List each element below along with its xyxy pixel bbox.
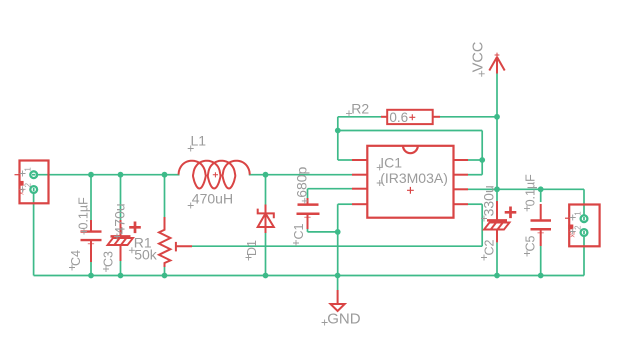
wire R1 top [164, 175, 166, 217]
wire D1 bottom [265, 233, 267, 276]
X1 pad 2 hole mark [33, 188, 35, 191]
X2 pad 1 hole mark [583, 217, 585, 220]
junction C5 bot [538, 273, 544, 279]
op-amp / regulator IC1 [367, 146, 453, 218]
X2 pad 1 [581, 215, 588, 222]
wire IC pin R2 [468, 174, 482, 176]
wire top rail from X1 pin1 to node at R1/L1 [32, 174, 165, 176]
wire node D1 to IC1 pin [266, 174, 353, 176]
IC1 pin stubs right [454, 159, 469, 161]
wire feedback up to IC pin [481, 204, 483, 246]
junction C1 bottom [335, 229, 341, 235]
wire to IC pin L1 [338, 159, 352, 161]
capacitor C4 [90, 220, 92, 232]
wire output down to X2 pin1 [583, 189, 585, 220]
wire C2 bottom [496, 242, 498, 275]
wire C1 stem [307, 189, 309, 198]
wire IC pin R4 [468, 203, 482, 205]
C5 origin tick [538, 232, 544, 234]
svg-text:2: 2 [24, 182, 33, 187]
X2 pin1 red tick [565, 217, 569, 219]
wire X2 pin2 down to bottom rail [583, 231, 585, 276]
X1 pin1 red tick [15, 174, 20, 176]
junction VCC/output [494, 186, 500, 192]
svg-text:C3: C3 [101, 251, 115, 267]
svg-text:R2: R2 [351, 100, 369, 116]
svg-text:C4: C4 [69, 250, 83, 266]
L1 origin cross [213, 172, 218, 177]
wire R1 bottom [164, 267, 166, 276]
C3 plus mark [129, 222, 141, 234]
wire mid horizontal [338, 130, 482, 132]
junction C4 bot [88, 273, 94, 279]
supply VCC symbol [489, 57, 504, 74]
svg-text:0.1µF: 0.1µF [77, 197, 91, 230]
inductor L1 [179, 161, 250, 189]
wire R2 right to VCC line [440, 116, 497, 118]
capacitor C1 [307, 198, 309, 205]
wire R2 left [338, 116, 381, 118]
svg-text:330u: 330u [480, 185, 496, 216]
svg-text:470uH: 470uH [192, 191, 233, 207]
junction R1/L1 [162, 172, 168, 178]
resistor R2 [381, 116, 387, 118]
X1 pad 1 [30, 171, 37, 178]
IC1 pin stubs left [352, 159, 367, 161]
origin crosses [346, 110, 352, 116]
junction C3 bot [118, 273, 124, 279]
junction L1/D1 [263, 172, 269, 178]
svg-text:0.6: 0.6 [389, 110, 408, 125]
junction C2 bot [494, 273, 500, 279]
capacitor C3 (polarized) [120, 220, 122, 236]
capacitor C5 [540, 204, 542, 221]
svg-text:2: 2 [574, 225, 583, 230]
junction C4 top [88, 172, 94, 178]
wire C3 top [120, 175, 122, 221]
svg-text:VCC: VCC [471, 42, 487, 73]
X1 pad 2 [30, 186, 37, 193]
svg-text:GND: GND [327, 311, 361, 328]
svg-text:680p: 680p [294, 166, 310, 197]
svg-text:D1: D1 [245, 240, 259, 256]
svg-text:C5: C5 [524, 235, 538, 251]
wire C4 bottom [90, 262, 92, 276]
svg-text:C2: C2 [482, 239, 496, 255]
resistor R1 (trimmer) [159, 217, 170, 267]
X2 pad 2 hole mark [583, 231, 585, 234]
wire L1 left lead [165, 174, 180, 176]
svg-text:1: 1 [24, 167, 33, 172]
junction R1 bot [162, 273, 168, 279]
svg-text:50k: 50k [134, 247, 158, 263]
wire R1 wiper to feedback [192, 245, 482, 247]
wire C1 bottom stem [307, 229, 309, 232]
svg-text:L1: L1 [191, 133, 207, 149]
wire C5 top [540, 189, 542, 202]
wire C1 top to IC pin L3 [308, 188, 353, 190]
svg-text:C1: C1 [292, 223, 306, 239]
wire C5 bottom [540, 246, 542, 276]
X2 pad 2 [581, 229, 588, 236]
wire IC pin L4 [338, 203, 352, 205]
wire L1 right lead to node D1 [249, 174, 266, 176]
IC1 notch [403, 146, 418, 153]
junction C3 top [118, 172, 124, 178]
C4 origin tick [88, 243, 94, 245]
IC1 origin cross [407, 187, 414, 194]
C2 plus mark [505, 207, 517, 219]
svg-text:0.1µF: 0.1µF [524, 174, 538, 207]
X1 pad 1 hole mark [32, 174, 35, 176]
wire C3 bottom [120, 261, 122, 276]
connector X1 [20, 161, 49, 204]
svg-text:IC1: IC1 [380, 154, 402, 170]
svg-text:1: 1 [574, 211, 583, 216]
wire bottom rail [34, 275, 584, 277]
wire D1 top [265, 175, 267, 205]
wire output rail [468, 188, 584, 190]
junction C5 top [538, 186, 544, 192]
diode D1 (zener) [265, 205, 267, 234]
wire VCC vertical [496, 73, 498, 202]
connector X2 [569, 205, 599, 247]
junction IC pin R1 [479, 157, 485, 163]
wire IC pin R1 [468, 159, 482, 161]
svg-text:470u: 470u [111, 203, 127, 234]
junction D1 bot [263, 273, 269, 279]
wire R2 left vertical [337, 117, 339, 160]
wire C4 top [90, 175, 92, 220]
C1 origin tick [304, 216, 310, 218]
junction GND [335, 273, 341, 279]
ground GND symbol [337, 276, 339, 291]
capacitor C2 (polarized) [496, 201, 498, 220]
wire junction down to GND rail [337, 232, 339, 276]
R2 origin cross [409, 114, 415, 120]
svg-text:(IR3M03A): (IR3M03A) [380, 170, 448, 186]
wire junction up to IC pin L4 [337, 204, 339, 232]
wire C1 bottom to junction [308, 231, 338, 233]
junction R2 left [335, 128, 341, 134]
wire down to IC pins R1 R2 [481, 131, 483, 175]
wire X1 pin2 down to bottom rail [33, 188, 35, 276]
R1 wiper [175, 242, 177, 252]
junction R2 right/VCC [494, 114, 500, 120]
